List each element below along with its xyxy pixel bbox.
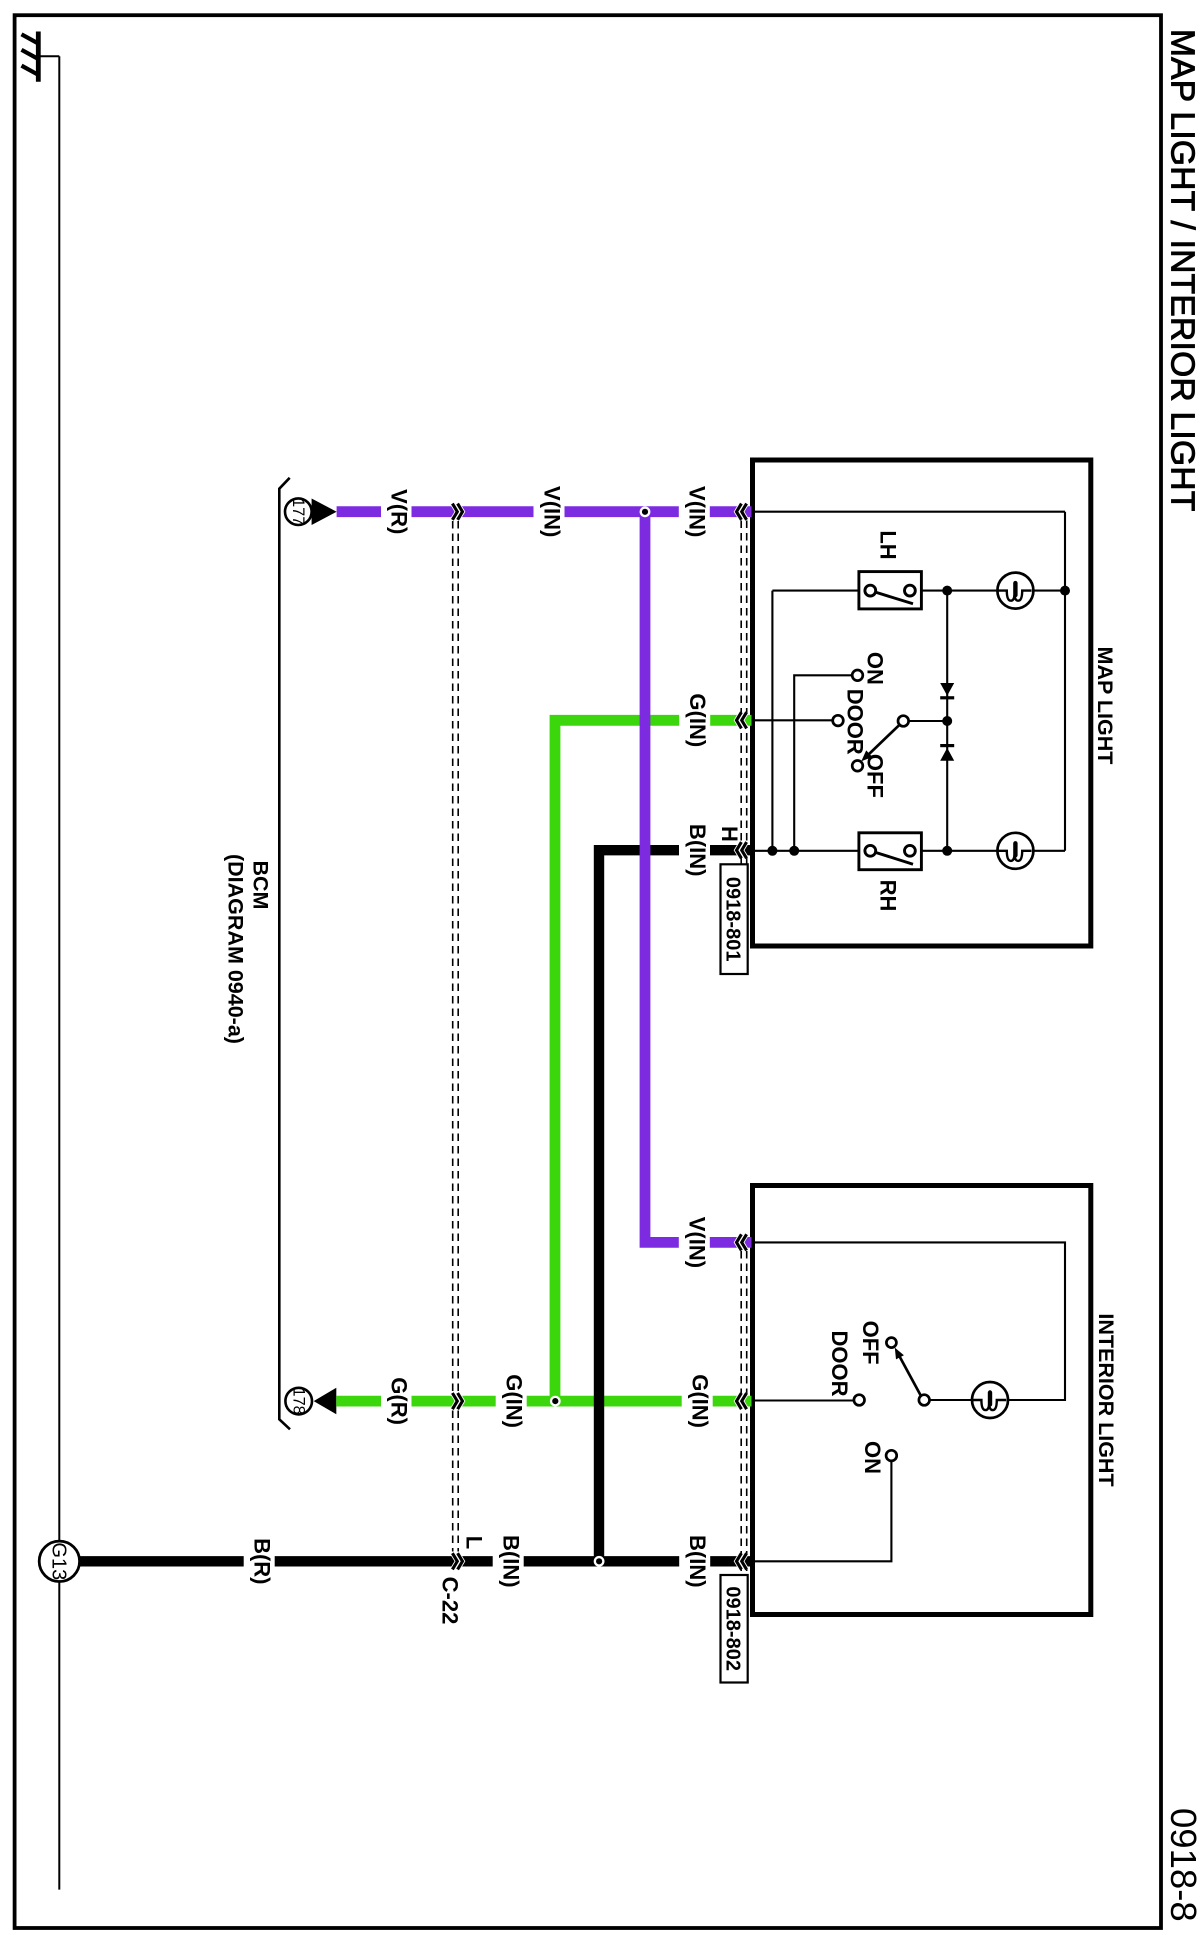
node 178 (circled reference to BCM) [285,1388,312,1415]
wire switch common to diode column [909,720,948,722]
connector C-22 chevrons on V(R) [452,504,462,520]
svg-text:V(IN): V(IN) [539,486,564,537]
svg-text:(DIAGRAM 0940-a): (DIAGRAM 0940-a) [224,854,248,1044]
svg-text:0918-802: 0918-802 [722,1586,744,1671]
wire V(IN) purple vertical + interior row [645,512,752,1243]
wire DOOR contact feed [752,719,833,721]
BCM bracket [279,478,290,1430]
junction G(IN) node [550,1396,561,1407]
wire ground stub [38,55,59,57]
MAP LIGHT component box [753,460,1091,946]
svg-text:0918-8: 0918-8 [1163,1808,1200,1922]
wire V(R)/V(IN) purple row [337,506,752,517]
wire G(IN) green to map light [555,720,752,1401]
map light internals [752,512,1066,851]
svg-text:OFF: OFF [858,1321,883,1365]
connector 0918-802 chevrons G(IN) [737,1393,747,1409]
svg-text:DOOR: DOOR [827,1331,852,1397]
interior switch blade with arrow [899,1355,921,1396]
interior switch: DOOR contact [854,1395,865,1406]
svg-text:G(IN): G(IN) [688,1374,713,1428]
diode D1 (upper) [940,683,954,698]
wire B(R)/B(IN) black row [80,1556,752,1566]
svg-text:G(R): G(R) [387,1377,412,1425]
node 177 (circled reference to BCM) [285,498,312,525]
ground symbol (chassis ground, top-left) [22,32,39,82]
svg-text:G13: G13 [47,1542,69,1580]
wire diode column [946,591,948,851]
wire B(IN) black to map light [599,850,679,1561]
svg-text:178: 178 [289,1388,307,1415]
wire bulb to common [929,1399,972,1401]
bulb interior light [972,1382,1008,1418]
connector dashed line 0918-802 (interior light) [741,1251,747,1575]
svg-text:OFF: OFF [863,754,888,798]
connector 0918-801 chevrons V(IN) [737,504,747,520]
connector C-22 chevrons on G(R) [452,1393,462,1409]
map light door switch: ON contact [852,670,863,681]
wire ON contact to B(IN) [794,675,852,851]
connector label box 0918-802 [721,1575,748,1683]
wire V(IN) inside interior light [753,1242,1065,1400]
wire RH switch row [753,850,1065,852]
map light door switch: common contact [898,716,909,727]
wire DOOR contact feed [752,1399,854,1401]
wire LH switch row [772,590,1065,592]
connector dashed line 0918-801 (map light) [741,521,747,865]
INTERIOR LIGHT component box [753,1186,1091,1615]
svg-text:B(IN): B(IN) [499,1535,524,1588]
svg-text:DOOR: DOOR [843,689,868,755]
wire LH switch to B(IN) (left vertical) [771,591,773,851]
wire V(IN) inside map light [753,511,1065,513]
svg-text:H: H [717,826,742,842]
ground G13 circle [39,1541,79,1581]
switch RH [859,833,922,870]
map light door switch: DOOR contact [833,715,844,726]
arrow into diagram at 177 [312,499,337,526]
arrow out of diagram at 178 [314,1388,337,1415]
interior switch: OFF contact [886,1338,896,1348]
bulb map light RH [997,833,1033,869]
svg-text:G(IN): G(IN) [685,693,710,747]
interior switch: common contact [919,1395,930,1406]
switch LH [859,572,922,609]
svg-text:V(IN): V(IN) [685,486,710,537]
svg-text:LH: LH [875,530,900,559]
connector 0918-801 chevrons B(IN) [737,842,747,858]
junction dots inside map light [1060,586,1070,596]
svg-text:ON: ON [863,652,888,685]
diode D2 (lower) [940,746,954,761]
bulb map light LH [997,573,1033,609]
junction B(IN) node [594,1556,605,1567]
svg-text:177: 177 [289,498,307,525]
connector 0918-802 chevrons V(IN) [737,1234,747,1250]
svg-text:ON: ON [860,1441,885,1474]
svg-text:RH: RH [875,880,900,912]
connector 0918-801 chevrons G(IN) [737,712,747,728]
svg-text:INTERIOR LIGHT: INTERIOR LIGHT [1094,1313,1118,1486]
junction V(IN) node [640,506,651,517]
connector C-22 chevrons on B(R) [452,1553,462,1569]
svg-text:B(R): B(R) [250,1538,275,1584]
interior light internals [752,1242,1066,1561]
svg-text:MAP LIGHT: MAP LIGHT [1093,647,1117,765]
connector dashed line C-22 [453,521,459,1552]
wire ground bus (left edge, vertical) [58,56,60,1889]
interior switch: ON contact [886,1450,897,1461]
connector label box 0918-801 [721,864,748,974]
wire G(R)/G(IN) green row [336,1396,751,1407]
map light door switch: OFF contact [852,761,863,772]
svg-text:G(IN): G(IN) [502,1374,527,1428]
svg-text:L: L [462,1536,487,1549]
svg-text:B(IN): B(IN) [685,824,710,877]
svg-text:0918-801: 0918-801 [722,877,744,962]
svg-text:C-22: C-22 [438,1577,463,1625]
svg-text:V(IN): V(IN) [685,1217,710,1268]
wire right vertical (bulb feed) [1064,512,1066,851]
map light door switch blade with arrow [868,725,900,756]
connector 0918-802 chevrons B(IN) [737,1553,747,1569]
wire ON contact to B(IN) [753,1461,891,1561]
svg-text:V(R): V(R) [387,489,412,534]
svg-text:B(IN): B(IN) [685,1535,710,1588]
svg-text:MAP LIGHT / INTERIOR LIGHT: MAP LIGHT / INTERIOR LIGHT [1163,29,1200,512]
svg-text:BCM: BCM [248,861,272,910]
